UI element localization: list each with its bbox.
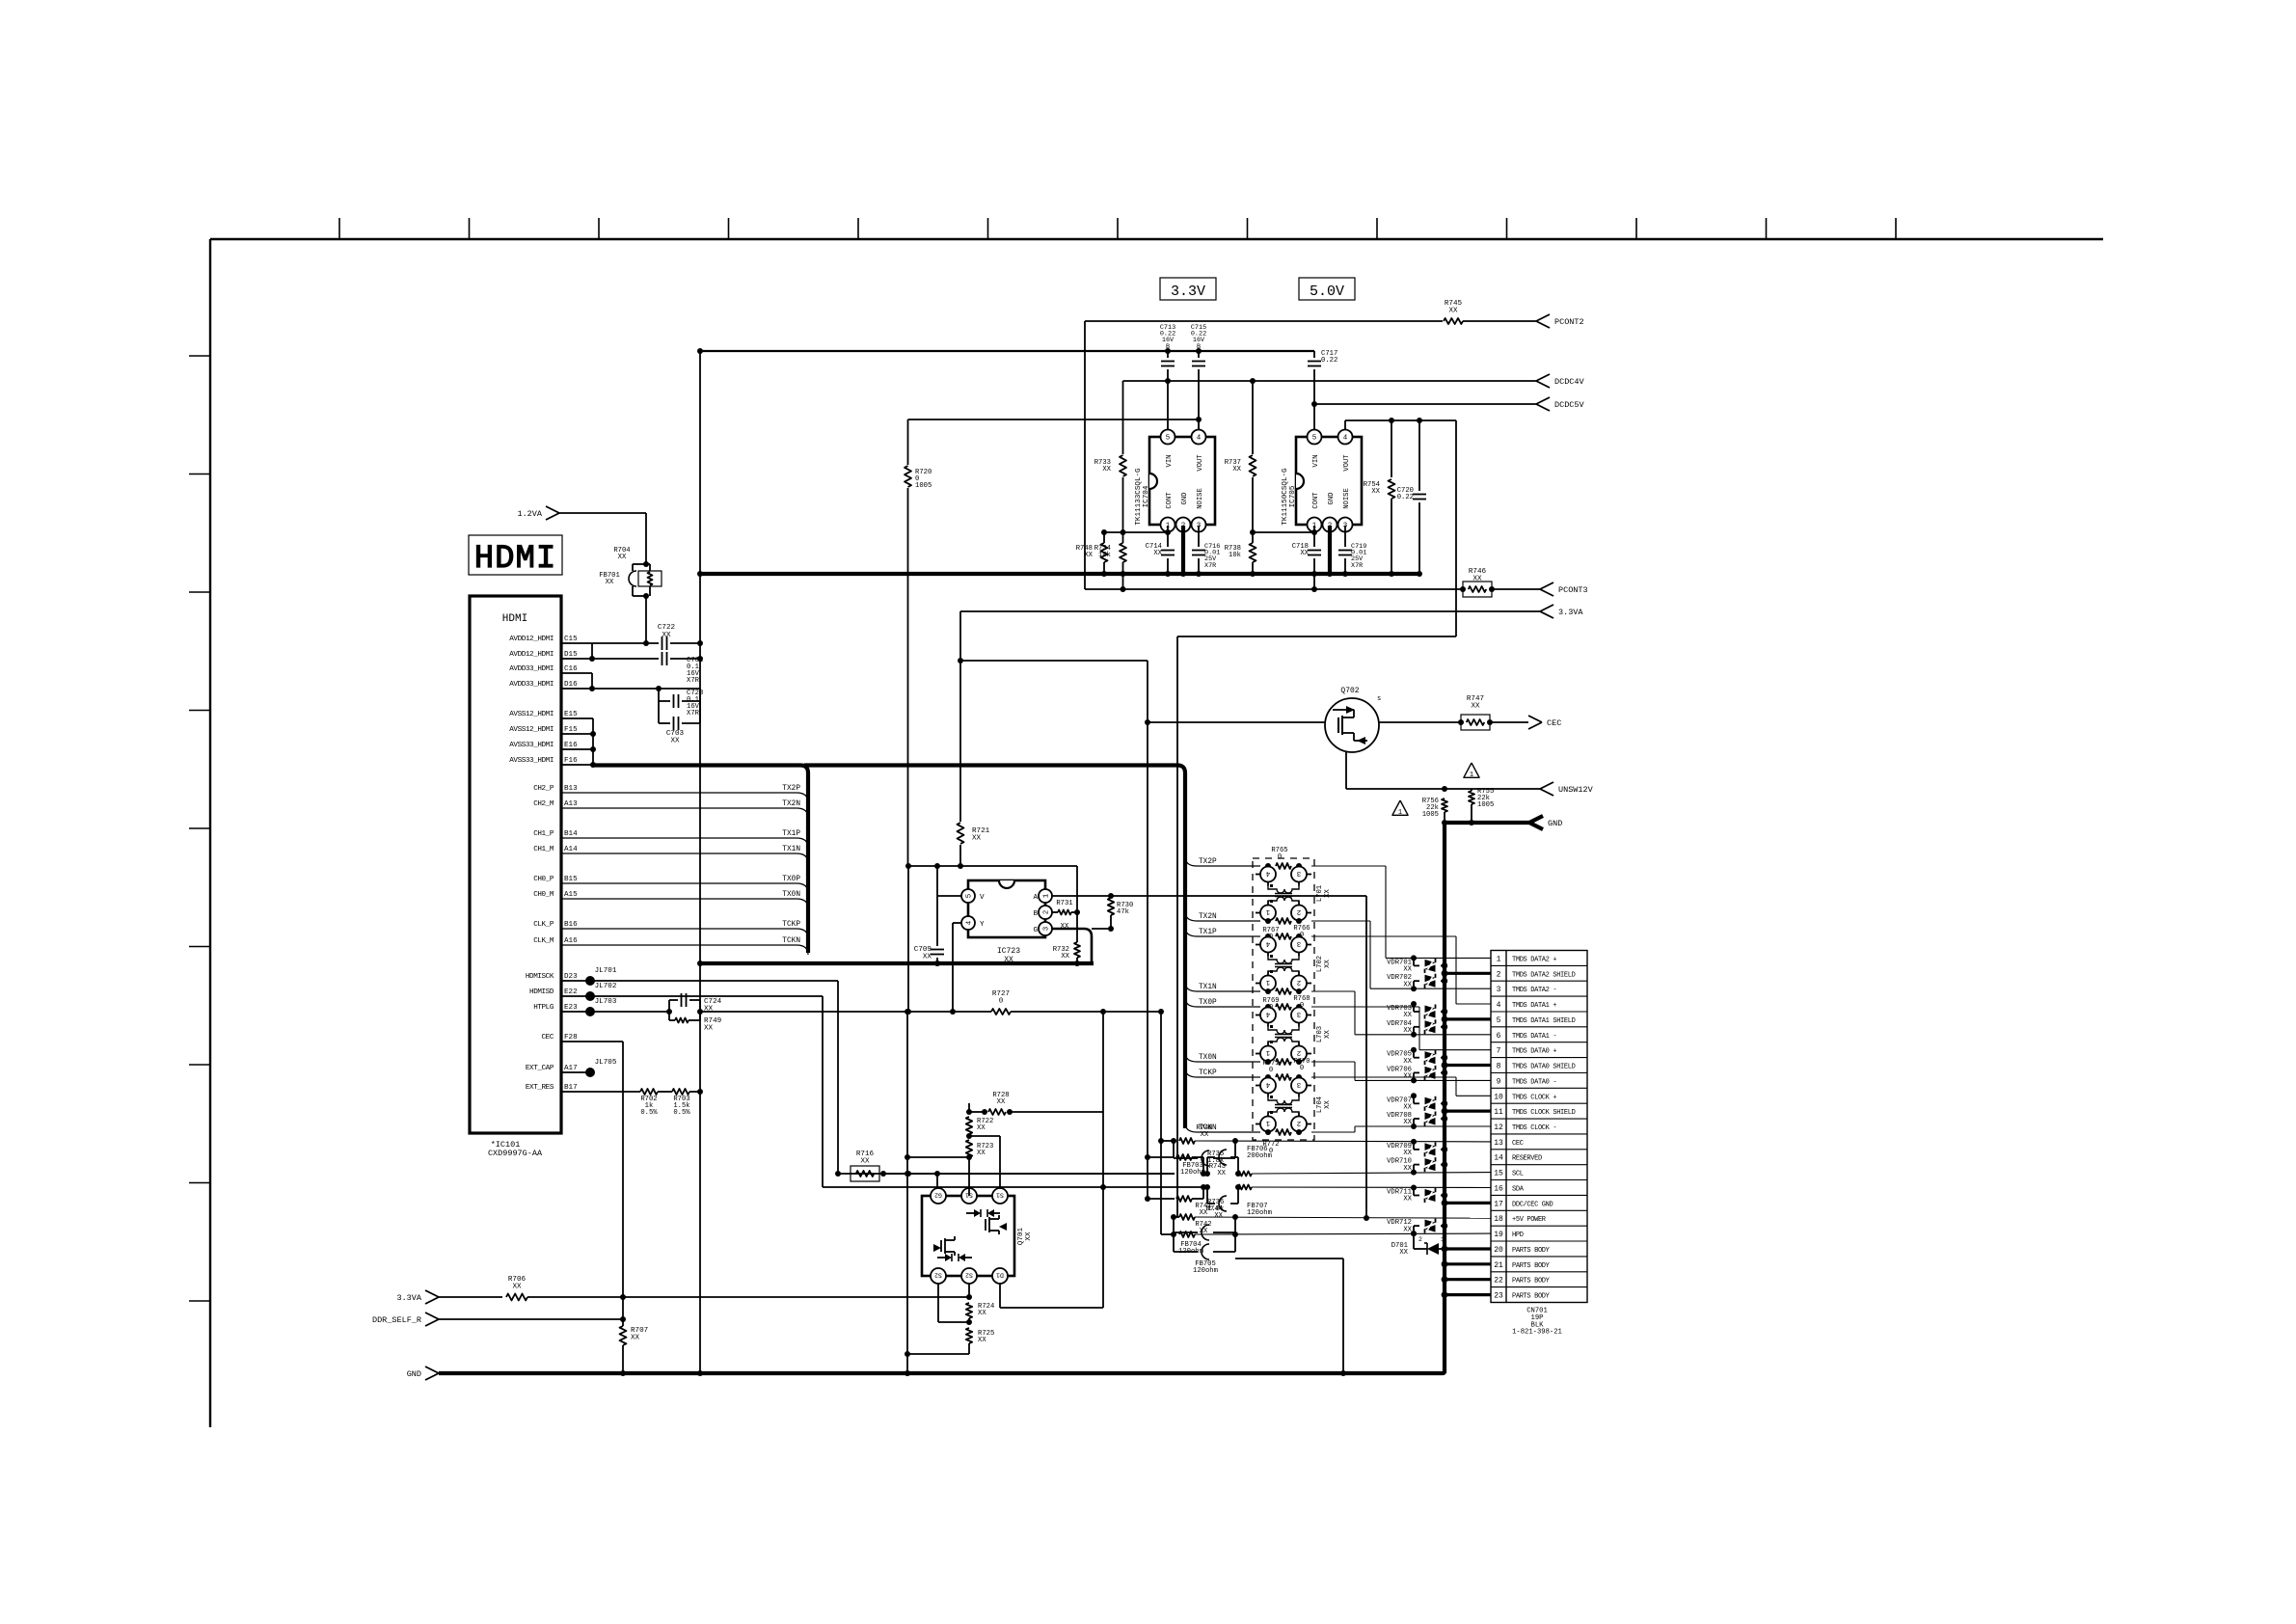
input flag PCONT2 bbox=[1536, 314, 1550, 321]
svg-text:3.3VA: 3.3VA bbox=[396, 1293, 421, 1303]
MOSFET Q702 bbox=[1325, 698, 1379, 752]
svg-text:21: 21 bbox=[1494, 1261, 1503, 1270]
IC704 GND thick bbox=[1181, 526, 1185, 574]
HDMI section label box bbox=[469, 535, 562, 575]
svg-text:4: 4 bbox=[1343, 435, 1348, 443]
svg-text:EXT_CAP: EXT_CAP bbox=[526, 1065, 554, 1072]
wire choke output to CN701 row 10 bbox=[1311, 1076, 1456, 1078]
resistor R754 bbox=[1391, 420, 1392, 477]
5.0V rail label bbox=[1299, 278, 1355, 300]
shield stub row 11 bbox=[1445, 1109, 1491, 1112]
varistor VDR710 bbox=[1411, 1170, 1417, 1176]
connector CN701 table bbox=[1491, 951, 1587, 1303]
svg-text:L701: L701 bbox=[1316, 885, 1324, 902]
svg-text:1: 1 bbox=[1470, 771, 1473, 779]
svg-text:XX: XX bbox=[1403, 981, 1412, 988]
wire TX1P from IC101 bbox=[561, 837, 797, 839]
svg-text:CH2_P: CH2_P bbox=[533, 785, 554, 793]
svg-text:D23: D23 bbox=[564, 973, 578, 981]
svg-text:2: 2 bbox=[1297, 978, 1302, 986]
svg-text:A14: A14 bbox=[564, 846, 578, 853]
wire TX2N from IC101 bbox=[561, 807, 797, 809]
svg-text:XX: XX bbox=[1324, 1100, 1332, 1109]
wire TX0N from IC101 bbox=[561, 898, 797, 900]
svg-text:S2: S2 bbox=[934, 1271, 942, 1278]
varistor VDR705 bbox=[1411, 1047, 1417, 1053]
svg-text:Q702: Q702 bbox=[1340, 687, 1359, 695]
resistor R747 (boxed) bbox=[1458, 719, 1464, 725]
svg-text:0: 0 bbox=[1278, 853, 1282, 861]
varistor VDR709 bbox=[1411, 1139, 1417, 1145]
resistor R736 1.8k pull bbox=[1148, 1198, 1175, 1200]
input flag DCDC4V bbox=[1536, 374, 1550, 381]
varistor VDR703 bbox=[1411, 1001, 1417, 1007]
svg-text:B17: B17 bbox=[564, 1084, 578, 1092]
wire IC723 pin1 (A) bbox=[1052, 895, 1111, 897]
resistor R746 (boxed) bbox=[1460, 586, 1466, 592]
svg-text:1: 1 bbox=[1497, 955, 1501, 963]
svg-text:PARTS BODY: PARTS BODY bbox=[1512, 1247, 1551, 1255]
svg-text:1-821-398-21: 1-821-398-21 bbox=[1512, 1329, 1562, 1337]
ferrite bead FB706 200ohm parallel on SCL bbox=[1206, 1157, 1208, 1174]
IC723 body bbox=[968, 880, 1045, 937]
varistor VDR701 bbox=[1411, 955, 1417, 961]
svg-text:0: 0 bbox=[1300, 1002, 1304, 1010]
capacitor C723 bbox=[658, 689, 660, 701]
svg-text:CH0_P: CH0_P bbox=[533, 876, 554, 883]
IC723 pin 4 (Y) bbox=[961, 916, 975, 930]
shield stub row 5 bbox=[1445, 1017, 1491, 1020]
wire Q702 source to UNSW12V bbox=[1345, 752, 1347, 789]
IC704 CONT node wire bbox=[1104, 531, 1168, 533]
wire x1144 riser bbox=[1102, 1012, 1104, 1112]
varistor VDR704 bbox=[1411, 1032, 1417, 1038]
svg-text:CLK_M: CLK_M bbox=[533, 937, 554, 945]
warning triangle 1 (R756) bbox=[1392, 800, 1408, 815]
svg-text:6: 6 bbox=[1497, 1032, 1501, 1041]
svg-text:G: G bbox=[1033, 927, 1038, 934]
resistor R735 1.8k pull bbox=[1148, 1156, 1175, 1158]
wire choke output to CN701 row 12 bbox=[1311, 1131, 1355, 1133]
wire IC705 VOUT riser and 5V line bbox=[1344, 420, 1346, 430]
svg-text:TX0N: TX0N bbox=[782, 891, 800, 899]
resistor R734 10k bbox=[1120, 543, 1126, 562]
svg-text:TMDS DATA0 -: TMDS DATA0 - bbox=[1512, 1078, 1556, 1086]
varistor VDR706 bbox=[1411, 1077, 1417, 1083]
svg-text:XX: XX bbox=[1201, 1131, 1209, 1139]
wire TX1N from IC101 bbox=[561, 853, 797, 854]
wire Q701 bottom pins bbox=[937, 1284, 939, 1322]
voltage regulator IC704 (TK11133CSQL-G) body bbox=[1149, 437, 1215, 525]
choke L703 bypass resistors bbox=[1276, 1004, 1291, 1010]
svg-text:CH1_M: CH1_M bbox=[533, 846, 554, 853]
wire 5V switch output down to +5V POWER row bbox=[1365, 896, 1367, 1218]
svg-text:XX: XX bbox=[606, 579, 614, 586]
svg-text:8: 8 bbox=[1497, 1063, 1501, 1071]
svg-text:D1: D1 bbox=[996, 1271, 1004, 1278]
svg-text:XX: XX bbox=[1403, 1165, 1412, 1173]
svg-text:XX: XX bbox=[1471, 703, 1480, 711]
svg-text:A13: A13 bbox=[564, 800, 578, 808]
svg-text:XX: XX bbox=[1403, 1150, 1412, 1157]
svg-text:VIN: VIN bbox=[1312, 455, 1320, 468]
IC705 GND thick bbox=[1328, 526, 1332, 574]
svg-text:0: 0 bbox=[1300, 1065, 1304, 1072]
Q701 pin S2b bbox=[961, 1268, 977, 1284]
svg-text:AVDD33_HDMI: AVDD33_HDMI bbox=[509, 681, 554, 689]
R728/R722 node wiring bbox=[968, 1103, 970, 1112]
wire TCKN from IC101 bbox=[561, 944, 797, 946]
svg-text:TMDS DATA1 +: TMDS DATA1 + bbox=[1512, 1002, 1556, 1010]
svg-text:TK11133CSQL-G: TK11133CSQL-G bbox=[1135, 468, 1143, 526]
svg-text:XX: XX bbox=[1403, 1058, 1412, 1066]
wire TX0P from bus to choke bbox=[1185, 997, 1197, 1007]
wire TX1P from bus to choke bbox=[1185, 927, 1197, 936]
svg-text:1.2VA: 1.2VA bbox=[517, 509, 542, 519]
wire TX2P from IC101 bbox=[561, 792, 797, 794]
svg-text:D16: D16 bbox=[564, 681, 578, 689]
svg-text:23: 23 bbox=[1494, 1292, 1503, 1301]
wire choke output to CN701 row 6 bbox=[1311, 990, 1355, 992]
svg-text:XX: XX bbox=[1300, 550, 1309, 557]
IC704 pin 3 (NOISE) bbox=[1192, 518, 1206, 532]
svg-text:UNSW12V: UNSW12V bbox=[1558, 785, 1594, 795]
ferrite bead FB707 120ohm parallel on SDA bbox=[1206, 1187, 1208, 1204]
svg-text:B14: B14 bbox=[564, 830, 578, 838]
capacitor C720 0.22 bbox=[1418, 420, 1420, 491]
capacitor C713 0.22 16V B bbox=[1165, 348, 1171, 354]
resistor R720 0 1005 bbox=[908, 419, 1200, 420]
svg-text:C15: C15 bbox=[564, 636, 578, 643]
svg-text:1: 1 bbox=[1265, 1119, 1270, 1126]
svg-text:200ohm: 200ohm bbox=[1247, 1152, 1272, 1160]
wire SCL line under Q701 bbox=[883, 1173, 1175, 1175]
IC723 pin 1 (A) bbox=[1039, 889, 1052, 903]
capacitor C715 0.22 16V B bbox=[1196, 348, 1202, 354]
svg-text:CXD9997G-AA: CXD9997G-AA bbox=[488, 1149, 543, 1158]
svg-text:0.22: 0.22 bbox=[1321, 357, 1337, 365]
svg-text:B: B bbox=[1197, 343, 1201, 351]
svg-text:R731: R731 bbox=[1056, 900, 1072, 907]
resistor R730 47k bbox=[1108, 898, 1114, 915]
voltage regulator IC705 (TK11150CSQL-G) body bbox=[1296, 437, 1362, 525]
svg-text:JL703: JL703 bbox=[595, 998, 617, 1006]
wire DCDC5V rail bbox=[1314, 403, 1536, 405]
Q701 internal diode 1 bbox=[974, 1209, 981, 1217]
svg-text:XX: XX bbox=[1061, 953, 1069, 961]
svg-text:XX: XX bbox=[1102, 466, 1111, 474]
svg-text:XX: XX bbox=[1448, 308, 1458, 315]
svg-text:E15: E15 bbox=[564, 711, 578, 718]
svg-text:CONT: CONT bbox=[1312, 492, 1320, 509]
svg-text:XX: XX bbox=[978, 1337, 986, 1344]
svg-text:0.5%: 0.5% bbox=[673, 1109, 690, 1117]
vertical rail x726 bbox=[699, 351, 701, 1373]
wire TX2P from bus to choke bbox=[1185, 856, 1197, 866]
Q701 internal MOSFET 2 bbox=[940, 1240, 942, 1252]
svg-text:TMDS CLOCK SHIELD: TMDS CLOCK SHIELD bbox=[1512, 1109, 1576, 1117]
resistor R755 22k 1005 bbox=[1469, 791, 1474, 804]
svg-text:1.8k: 1.8k bbox=[1207, 1157, 1224, 1165]
dashed isolation box around chokes bbox=[1253, 858, 1314, 1140]
svg-text:TMDS CLOCK -: TMDS CLOCK - bbox=[1512, 1124, 1556, 1132]
shield stub row 22 bbox=[1445, 1278, 1491, 1281]
svg-text:GND: GND bbox=[1548, 819, 1562, 828]
bottom thick bus y999 bbox=[700, 961, 1094, 965]
svg-text:1: 1 bbox=[1265, 907, 1270, 915]
svg-text:16: 16 bbox=[1494, 1185, 1503, 1194]
svg-text:HTPLG: HTPLG bbox=[533, 1004, 554, 1012]
ferrite bead FB705 120ohm bbox=[1173, 1234, 1175, 1252]
svg-text:AVDD33_HDMI: AVDD33_HDMI bbox=[509, 665, 554, 673]
svg-text:PARTS BODY: PARTS BODY bbox=[1512, 1262, 1551, 1270]
jumper JL701 bbox=[561, 980, 590, 982]
choke L701 bypass resistors bbox=[1276, 863, 1291, 869]
Q701 internal diode 2 bbox=[945, 1254, 952, 1261]
shield stub row 21 bbox=[1445, 1262, 1491, 1265]
svg-text:XX: XX bbox=[1403, 1104, 1412, 1112]
svg-text:1: 1 bbox=[1043, 893, 1051, 898]
wire choke output to CN701 row 7 bbox=[1311, 1006, 1419, 1008]
wire HPD row19 with R742 FB705 bbox=[1160, 1141, 1162, 1234]
common-mode choke L702 bbox=[1265, 934, 1271, 939]
svg-text:XX: XX bbox=[860, 1158, 870, 1166]
svg-text:10: 10 bbox=[1494, 1093, 1503, 1101]
svg-text:4: 4 bbox=[1497, 1001, 1501, 1010]
shield stub row 17 bbox=[1445, 1202, 1491, 1204]
varistor VDR707 bbox=[1411, 1093, 1417, 1098]
svg-text:4: 4 bbox=[1265, 1080, 1270, 1088]
svg-text:B16: B16 bbox=[564, 921, 578, 929]
svg-text:XX: XX bbox=[1217, 1170, 1226, 1177]
svg-text:0: 0 bbox=[999, 998, 1004, 1006]
svg-text:XX: XX bbox=[1200, 1209, 1208, 1217]
svg-text:TCKP: TCKP bbox=[782, 921, 800, 929]
svg-text:XX: XX bbox=[704, 1025, 714, 1033]
svg-text:XX: XX bbox=[1403, 1027, 1412, 1035]
3.3V rail label bbox=[1160, 278, 1216, 300]
svg-text:DDR_SELF_R: DDR_SELF_R bbox=[372, 1315, 421, 1325]
svg-text:XX: XX bbox=[977, 1124, 986, 1132]
svg-text:3: 3 bbox=[1296, 1080, 1301, 1088]
svg-text:14: 14 bbox=[1494, 1154, 1503, 1163]
resistor R731 bbox=[1052, 911, 1058, 913]
svg-text:3.3VA: 3.3VA bbox=[1558, 608, 1583, 617]
svg-text:TMDS CLOCK +: TMDS CLOCK + bbox=[1512, 1094, 1556, 1101]
svg-text:XX: XX bbox=[1403, 1012, 1412, 1019]
svg-text:TX1P: TX1P bbox=[1199, 929, 1217, 936]
svg-text:XX: XX bbox=[1324, 889, 1332, 898]
ferrite bead FB701 with resistor R704 parallel bbox=[645, 557, 647, 564]
svg-text:3.3V: 3.3V bbox=[1171, 284, 1205, 300]
svg-text:HDMI: HDMI bbox=[474, 541, 557, 578]
IC705 pin 4 (VOUT) bbox=[1338, 430, 1353, 445]
capacitor C724 bbox=[668, 1000, 670, 1012]
svg-text:XX: XX bbox=[1403, 1119, 1412, 1126]
IC705 pin 2 (GND) bbox=[1323, 518, 1337, 532]
IC723 supply node wire bbox=[908, 865, 1077, 867]
svg-text:11: 11 bbox=[1494, 1108, 1503, 1117]
svg-text:TX0P: TX0P bbox=[782, 876, 800, 883]
capacitor C719 0.01 25V X7R bbox=[1344, 526, 1346, 547]
resistor R744 on SDA bbox=[1238, 1185, 1252, 1190]
resistor R733 bbox=[1122, 381, 1124, 454]
wire choke output to CN701 row 1 bbox=[1311, 865, 1386, 867]
svg-text:GND: GND bbox=[1328, 493, 1336, 505]
svg-text:VOUT: VOUT bbox=[1197, 454, 1204, 472]
wire IC723 pin3 (G) bbox=[1052, 928, 1084, 931]
resistor R716 (boxed) bbox=[835, 1171, 841, 1177]
svg-text:4: 4 bbox=[966, 920, 974, 925]
svg-text:NOISE: NOISE bbox=[1197, 488, 1204, 509]
wire HTPLG to R727 bbox=[700, 1011, 953, 1013]
capacitor C718 bbox=[1313, 532, 1315, 547]
svg-text:JL702: JL702 bbox=[595, 983, 617, 990]
svg-text:C722: C722 bbox=[658, 624, 676, 632]
svg-text:20: 20 bbox=[1494, 1246, 1503, 1255]
left ruler ticks bbox=[189, 355, 210, 357]
resistor R748 bbox=[1101, 543, 1108, 562]
IC704 pin 2 (GND) bbox=[1176, 518, 1191, 532]
svg-text:XX: XX bbox=[1084, 552, 1093, 559]
svg-text:0: 0 bbox=[1300, 932, 1304, 939]
svg-text:AVSS12_HDMI: AVSS12_HDMI bbox=[509, 711, 554, 718]
warning triangle 1 (R755) bbox=[1464, 763, 1479, 777]
IC705 pin 5 (VIN) bbox=[1308, 430, 1322, 445]
svg-text:L702: L702 bbox=[1316, 956, 1324, 972]
wire Q701 G2 up to SCL line bbox=[936, 1174, 938, 1188]
wire TX0N from bus to choke bbox=[1185, 1052, 1197, 1062]
svg-text:TX1N: TX1N bbox=[1199, 984, 1217, 991]
wire 3.3VA rail bbox=[960, 610, 1540, 612]
svg-text:HDMISD: HDMISD bbox=[529, 988, 554, 996]
wire CEC row13 with R740 bbox=[1160, 1012, 1162, 1141]
svg-text:XX: XX bbox=[1403, 1073, 1412, 1081]
svg-text:5.0V: 5.0V bbox=[1310, 284, 1344, 300]
svg-text:TMDS DATA2 -: TMDS DATA2 - bbox=[1512, 987, 1556, 994]
svg-text:XX: XX bbox=[670, 738, 680, 745]
svg-text:XX: XX bbox=[1232, 466, 1241, 474]
PCONT3 line bbox=[1085, 588, 1463, 590]
svg-text:3: 3 bbox=[1043, 926, 1051, 931]
svg-text:TCKN: TCKN bbox=[782, 937, 800, 945]
svg-text:TMDS DATA1 SHIELD: TMDS DATA1 SHIELD bbox=[1512, 1017, 1576, 1025]
svg-text:HDMISCK: HDMISCK bbox=[526, 973, 554, 981]
wire 3.3VA branch to pull-up rail x1190 bbox=[960, 660, 1148, 662]
svg-text:XX: XX bbox=[978, 1310, 986, 1317]
capacitor C709 bbox=[936, 896, 938, 946]
jumper JL705 bbox=[561, 1071, 590, 1073]
resistor R725 bbox=[966, 1328, 972, 1343]
svg-text:10k: 10k bbox=[1098, 552, 1111, 559]
input flag DCDC5V bbox=[1536, 397, 1550, 404]
ferrite bead FB703 120ohm parallel bbox=[1173, 1141, 1175, 1158]
wire AVDD33 D16 bbox=[561, 688, 700, 690]
svg-text:TX0N: TX0N bbox=[1199, 1054, 1217, 1062]
svg-text:XX: XX bbox=[1214, 1212, 1223, 1220]
svg-text:PCONT2: PCONT2 bbox=[1554, 317, 1584, 327]
varistor VDR711 bbox=[1411, 1185, 1417, 1191]
svg-text:0.22: 0.22 bbox=[1397, 494, 1414, 501]
svg-text:DCDC5V: DCDC5V bbox=[1554, 400, 1585, 410]
svg-text:120ohm: 120ohm bbox=[1247, 1209, 1272, 1217]
Q701 body bbox=[922, 1196, 1014, 1276]
svg-text:NOISE: NOISE bbox=[1343, 488, 1351, 509]
wire R723 bottom to x941 bbox=[907, 1156, 969, 1158]
svg-text:AVSS33_HDMI: AVSS33_HDMI bbox=[509, 757, 554, 765]
common-mode choke L701 bbox=[1265, 863, 1271, 869]
svg-text:XX: XX bbox=[1153, 550, 1162, 557]
svg-text:XX: XX bbox=[1403, 966, 1412, 974]
svg-text:DCDC4V: DCDC4V bbox=[1554, 377, 1585, 387]
svg-text:1: 1 bbox=[1398, 809, 1402, 817]
resistor R707 bbox=[620, 1326, 627, 1345]
svg-text:A16: A16 bbox=[564, 937, 578, 945]
svg-text:XX: XX bbox=[631, 1335, 640, 1342]
bottom thick rail under regulators bbox=[700, 572, 1419, 576]
svg-text:PARTS BODY: PARTS BODY bbox=[1512, 1278, 1551, 1286]
svg-text:XX: XX bbox=[1324, 1030, 1332, 1039]
svg-text:B15: B15 bbox=[564, 876, 578, 883]
svg-text:A15: A15 bbox=[564, 891, 578, 899]
svg-text:XX: XX bbox=[1025, 1232, 1033, 1241]
svg-text:TX2P: TX2P bbox=[782, 785, 800, 793]
resistor R702 1k 0.5% bbox=[640, 1089, 658, 1095]
svg-text:VOUT: VOUT bbox=[1343, 454, 1351, 472]
varistor VDR708 bbox=[1411, 1123, 1417, 1129]
svg-text:5: 5 bbox=[1166, 435, 1171, 443]
wire AVSS33 F16 (ground return, thick) bbox=[561, 764, 593, 766]
svg-text:CH1_P: CH1_P bbox=[533, 830, 554, 838]
IC704 pin 4 (VOUT) bbox=[1192, 430, 1206, 445]
svg-text:0.5%: 0.5% bbox=[640, 1109, 658, 1117]
svg-text:CONT: CONT bbox=[1166, 492, 1174, 509]
shield stub row 8 bbox=[1445, 1064, 1491, 1067]
svg-text:5: 5 bbox=[966, 893, 974, 898]
resistor R727 0ohm bbox=[953, 1011, 991, 1013]
svg-text:XX: XX bbox=[618, 554, 627, 561]
svg-text:DDC/CEC GND: DDC/CEC GND bbox=[1512, 1201, 1553, 1208]
svg-text:0: 0 bbox=[1269, 934, 1273, 941]
top ruler ticks bbox=[338, 218, 340, 239]
svg-text:TX2P: TX2P bbox=[1199, 858, 1217, 866]
wire +5V POWER row18 with R741 FB704 bbox=[1174, 1216, 1177, 1218]
Q701 pin G2 bbox=[931, 1188, 946, 1204]
svg-text:E22: E22 bbox=[564, 988, 578, 996]
svg-text:1: 1 bbox=[1265, 978, 1270, 986]
wire SCL row15 from HDMISCK bbox=[838, 1173, 1175, 1175]
svg-text:B: B bbox=[1166, 343, 1170, 351]
choke L702 bypass resistors bbox=[1276, 934, 1291, 939]
IC704 pin 5 (VIN) bbox=[1161, 430, 1175, 445]
svg-text:IC705: IC705 bbox=[1289, 485, 1297, 507]
svg-text:1: 1 bbox=[1441, 1236, 1445, 1243]
wire TCKP from IC101 bbox=[561, 928, 797, 930]
TX bus (thick) right vertical bbox=[1177, 766, 1185, 1129]
capacitor C717 0.22 bbox=[1313, 351, 1315, 358]
capacitor C716 0.01 25V X7R bbox=[1198, 526, 1200, 547]
wire IC723 pin4 (Y) down to HTPLG line bbox=[953, 922, 961, 924]
resistor R749 bbox=[668, 1012, 670, 1020]
resistor R703 1.5k 0.5% bbox=[672, 1089, 689, 1095]
wire TCKN from bus to choke bbox=[1185, 1123, 1197, 1132]
wire choke output to CN701 row 9 bbox=[1311, 1061, 1355, 1063]
svg-text:XX: XX bbox=[512, 1284, 522, 1291]
resistor R756 22k 1005 bbox=[1442, 798, 1447, 812]
wire EXT_RES with R702 R703 bbox=[561, 1091, 640, 1093]
svg-text:1005: 1005 bbox=[915, 482, 932, 490]
resistor R706 bbox=[506, 1294, 527, 1301]
